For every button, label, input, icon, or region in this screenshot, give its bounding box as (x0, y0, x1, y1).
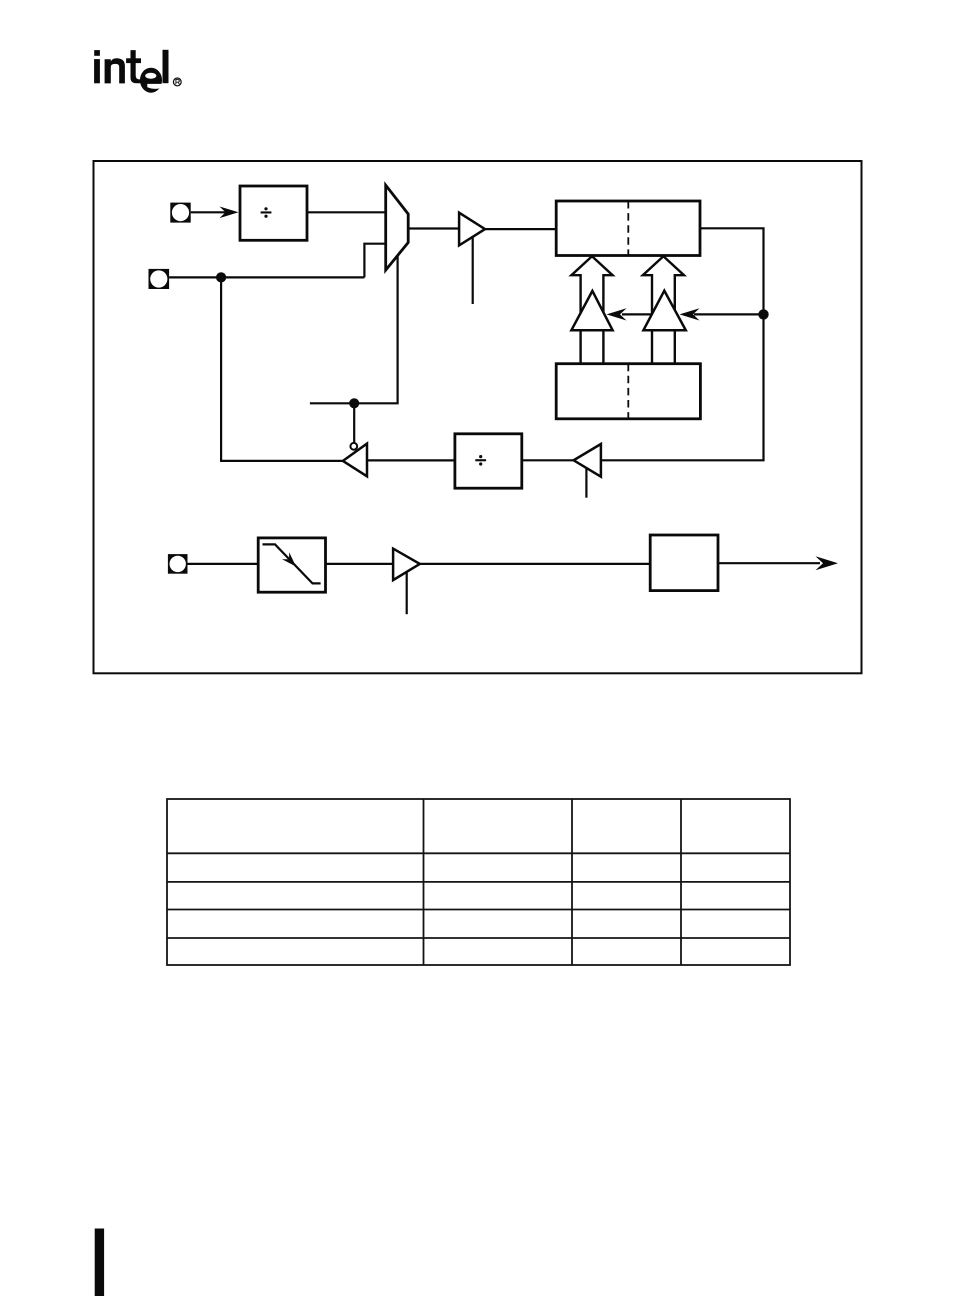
junction node A (216, 272, 226, 282)
divider box U2 (÷) (455, 434, 522, 488)
upper register box (556, 201, 700, 256)
output wire with arrowhead (718, 556, 838, 570)
junction node C (349, 398, 359, 408)
page margin bar (95, 1229, 104, 1296)
wire B3 to output box (420, 563, 650, 565)
left amp triangle (571, 291, 612, 330)
inverter G1 (343, 444, 367, 477)
buffer B2 enable stub (585, 468, 587, 497)
feedback wire inverter output to node A (221, 277, 343, 461)
right amp triangle (643, 291, 685, 331)
mux M1 (386, 185, 409, 270)
wire T2 horizontal (169, 276, 364, 278)
input terminal T2 (149, 269, 170, 289)
lower box dashed divider (627, 364, 629, 419)
buffer B1 (459, 213, 485, 246)
input terminal T3 (168, 554, 188, 574)
wire upper box to right rail and down to buffer B2 (601, 228, 764, 460)
wire buffer B2 to divider U2 (522, 459, 574, 461)
inverter bubble (350, 443, 357, 450)
wire arrow from rail into right amp (680, 308, 764, 320)
mux select wire from node C (310, 256, 398, 404)
buffer B1 enable stub (472, 237, 474, 304)
right block arrow shaft and head (643, 256, 684, 364)
buffer B3 enable stub (406, 572, 408, 614)
wire B1 to upper register box (485, 228, 556, 230)
wire node C down to inverter bubble (353, 403, 355, 443)
wire mux to buffer B1 (408, 227, 459, 229)
intel logo (94, 50, 168, 93)
slew rate box U3 (258, 538, 325, 592)
wire divider U2 to inverter (367, 459, 455, 461)
lower register box (556, 364, 700, 419)
intel dropped-e counter and opening (145, 73, 163, 89)
buffer B2 (574, 444, 601, 477)
input terminal T1 (170, 203, 190, 223)
upper box dashed divider (627, 201, 629, 256)
wire T3 to slew box (188, 563, 259, 565)
divider box U1 (÷) (240, 186, 307, 240)
buffer B3 (393, 549, 420, 581)
diagram frame (94, 161, 862, 673)
registered trademark symbol (173, 78, 181, 86)
wire T1 to divider with arrowhead (191, 207, 239, 219)
table grid (167, 799, 790, 965)
left block arrow shaft and head (571, 256, 612, 364)
wire U1 to mux (307, 211, 386, 213)
wire step up into mux (364, 244, 385, 278)
output box U4 (650, 535, 718, 591)
wire arrow from right amp into left amp (607, 308, 652, 320)
junction node B on rail (758, 309, 768, 319)
wire slew box to buffer B3 (326, 563, 394, 565)
